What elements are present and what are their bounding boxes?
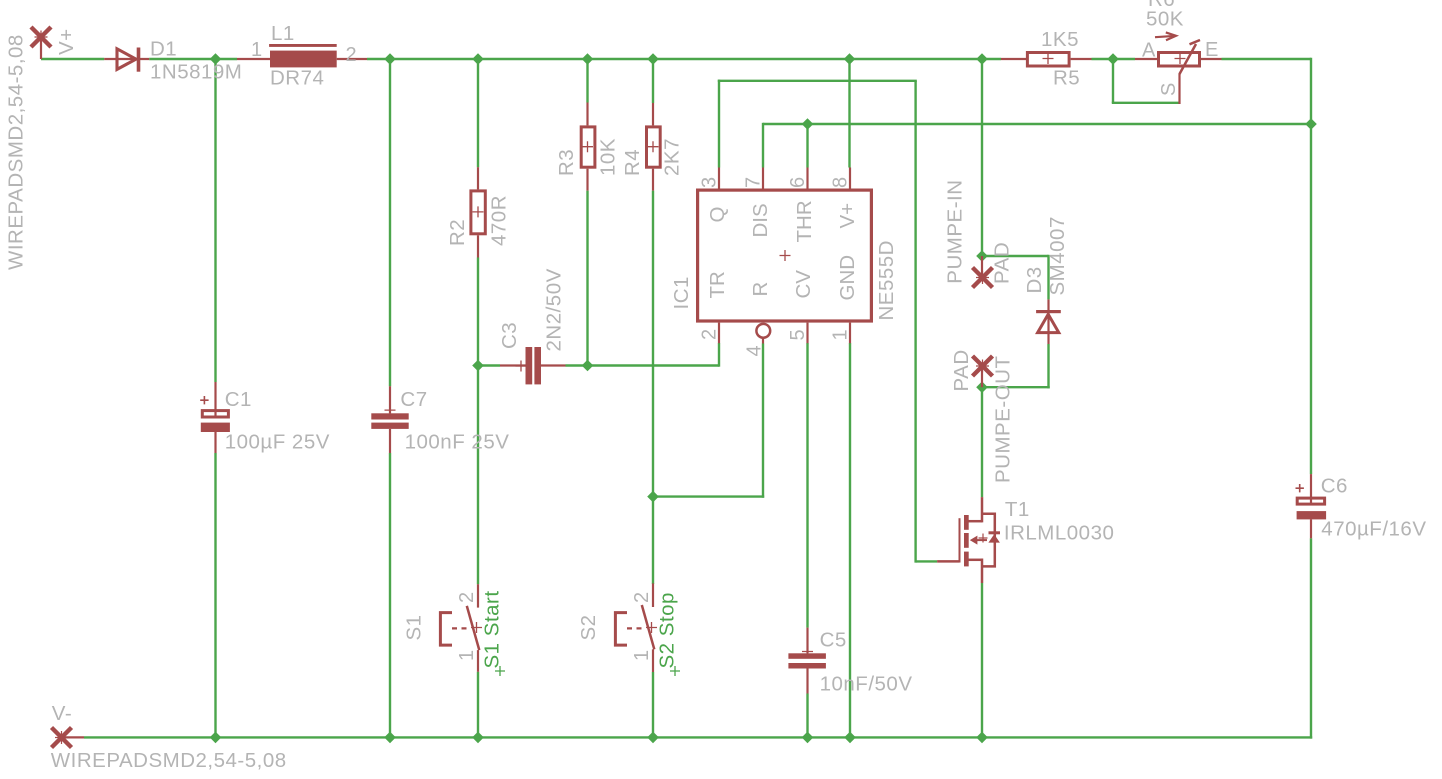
junction	[1305, 118, 1317, 130]
switch S2 lever	[642, 605, 655, 649]
IC1 pin 1 stub	[849, 323, 851, 344]
transistor T1 drain-bar connector	[969, 520, 983, 523]
capacitor C5 bottom pin	[806, 669, 808, 694]
wire up to IC pin 2	[718, 343, 720, 367]
svg-text:SM4007: SM4007	[1046, 216, 1069, 295]
junction	[976, 381, 988, 393]
wire D3 anode down	[1047, 344, 1049, 388]
svg-text:V+: V+	[836, 203, 859, 229]
wire IC pin 3 up	[718, 80, 720, 168]
wire pad PUMPE-IN	[973, 268, 993, 288]
wire to PUMPE-OUT node	[982, 386, 1050, 388]
junction	[582, 360, 594, 372]
wire down to D3 cathode	[1047, 255, 1049, 300]
transistor T1 substrate arrow	[970, 536, 987, 545]
wire R4 to S2 pin 2	[652, 191, 654, 584]
svg-text:PAD: PAD	[950, 349, 973, 391]
svg-text:E: E	[1205, 39, 1219, 61]
svg-text:2N2/50V: 2N2/50V	[543, 268, 566, 351]
wire top rail to R2	[477, 59, 479, 167]
capacitor C5 top pin	[806, 628, 808, 654]
wire T1 source to bottom rail	[981, 583, 983, 737]
svg-text:A: A	[1142, 40, 1156, 62]
junction	[844, 53, 856, 65]
wire pot S horizontal	[1112, 102, 1180, 104]
potentiometer R6 left pin	[1135, 58, 1157, 60]
junction	[472, 53, 484, 65]
IC1 pin 5 stub	[806, 323, 808, 344]
junction	[384, 53, 396, 65]
switch S2 pin 1	[652, 649, 654, 672]
wire pad V+	[31, 27, 51, 47]
capacitor C3 right pin	[541, 364, 566, 366]
junction	[582, 53, 594, 65]
svg-text:1K5: 1K5	[1041, 28, 1079, 51]
svg-text:D1: D1	[150, 38, 177, 61]
svg-text:2: 2	[346, 44, 358, 66]
wire C5 to bottom rail	[806, 694, 808, 738]
junction	[647, 491, 659, 503]
svg-text:R4: R4	[621, 149, 644, 176]
junction	[210, 732, 222, 744]
resistor R3	[581, 127, 595, 167]
resistor R2	[471, 191, 485, 234]
wire IC pin 4 down	[762, 344, 764, 498]
junction	[976, 250, 988, 262]
capacitor C7 bottom pin	[389, 429, 391, 453]
transistor T1 body diode	[988, 531, 1000, 542]
wire top rail to R4	[652, 59, 654, 103]
wire DIS-THR net horizontal	[763, 123, 1311, 125]
capacitor C6 bottom pin	[1310, 519, 1312, 538]
resistor R3 bottom pin	[586, 169, 588, 191]
potentiometer R6 right pin	[1201, 58, 1222, 60]
diode D3 pin	[1047, 299, 1049, 344]
wire C1 branch lower	[214, 453, 216, 737]
wire C7 branch upper	[389, 59, 391, 386]
wire IC pin 8 to top rail	[848, 59, 850, 168]
svg-text:V-: V-	[52, 702, 72, 725]
transistor T1 drain pin	[981, 497, 984, 522]
svg-text:8: 8	[830, 176, 852, 188]
svg-text:R5: R5	[1053, 67, 1080, 90]
IC op-amp/timer IC1 body	[698, 190, 872, 321]
svg-text:C1: C1	[225, 388, 252, 411]
inductor L1 pin 1	[237, 58, 270, 60]
wire C3 left node	[478, 364, 500, 366]
transistor T1 gate line	[959, 518, 961, 562]
transistor T1 gate pin	[937, 560, 959, 563]
resistor R5 right pin	[1071, 58, 1092, 60]
capacitor C3	[526, 347, 542, 384]
svg-text:L1: L1	[271, 22, 295, 45]
svg-text:100nF 25V: 100nF 25V	[405, 431, 510, 454]
svg-text:WIREPADSMD2,54-5,08: WIREPADSMD2,54-5,08	[51, 749, 287, 772]
svg-text:DIS: DIS	[749, 203, 772, 237]
svg-text:PUMPE-IN: PUMPE-IN	[944, 179, 967, 283]
svg-text:10nF/50V: 10nF/50V	[820, 673, 913, 696]
svg-text:S2: S2	[577, 614, 600, 640]
wire C7 branch lower	[389, 453, 391, 737]
IC1 pin 2 stub	[718, 323, 720, 344]
capacitor C6	[1297, 498, 1327, 519]
wire PUMPE-IN node to D3	[982, 255, 1049, 257]
transistor T1 source connector	[969, 559, 983, 562]
IC1 pin 4 stub	[762, 338, 764, 343]
svg-text:IC1: IC1	[670, 276, 693, 309]
switch S2 pin 2	[652, 583, 654, 607]
svg-text:S1 Start: S1 Start	[480, 590, 503, 668]
svg-text:THR: THR	[793, 200, 816, 242]
junction	[802, 732, 814, 744]
svg-text:50K: 50K	[1146, 8, 1184, 31]
svg-text:3: 3	[699, 176, 721, 188]
junction	[472, 732, 484, 744]
svg-text:PAD: PAD	[991, 242, 1014, 284]
transistor T1 right branch	[982, 514, 995, 567]
wire TR node to IC pin 2	[588, 364, 720, 366]
potentiometer R6 body	[1159, 53, 1200, 67]
svg-text:R3: R3	[555, 149, 578, 176]
wire pad PUMPE-IN pin	[981, 256, 983, 278]
wire pot E to right edge	[1222, 58, 1312, 60]
wire D1 cathode to L1	[149, 58, 237, 60]
svg-text:C5: C5	[820, 628, 847, 651]
junction	[647, 53, 659, 65]
wire V- bottom rail	[84, 736, 1312, 738]
wire C3 right to R3 node	[566, 364, 588, 366]
capacitor C6 plus sign	[1296, 484, 1304, 492]
origin cross S1 Start	[495, 666, 505, 676]
wire to T1 gate	[916, 560, 938, 562]
IC1 pin 4 inversion bubble	[756, 324, 770, 338]
inductor L1	[269, 44, 337, 67]
capacitor C1 top pin	[214, 382, 216, 417]
wire pad PUMPE-OUT pin	[981, 366, 983, 387]
wire R2 to S1 pin 2	[477, 258, 479, 585]
wire C6 to bottom rail	[1310, 538, 1312, 738]
wire top rail to R3	[586, 59, 588, 103]
diode D1	[117, 48, 140, 72]
svg-text:470R: 470R	[487, 195, 510, 246]
wire top rail L1 to R5	[367, 58, 1001, 60]
capacitor C5	[788, 653, 826, 668]
junction	[976, 53, 988, 65]
svg-text:2K7: 2K7	[660, 138, 683, 176]
switch S2 actuator bracket	[615, 613, 627, 646]
transistor T1 channel bars	[964, 515, 969, 566]
resistor R2 bottom pin	[477, 235, 479, 257]
svg-text:IRLML0030: IRLML0030	[1004, 521, 1114, 544]
svg-text:2: 2	[631, 591, 653, 603]
svg-text:T1: T1	[1005, 498, 1030, 521]
junction	[802, 118, 814, 130]
capacitor C6 top pin	[1310, 474, 1312, 504]
svg-text:WIREPADSMD2,54-5,08: WIREPADSMD2,54-5,08	[5, 34, 28, 270]
junction	[210, 53, 222, 65]
svg-text:TR: TR	[706, 271, 729, 298]
potentiometer R6 wiper	[1180, 40, 1201, 74]
svg-text:S2 Stop: S2 Stop	[655, 592, 678, 668]
transistor T1 source pin	[981, 559, 984, 584]
junction	[384, 732, 396, 744]
switch S1 actuator bracket	[440, 613, 452, 646]
svg-text:1: 1	[251, 39, 263, 61]
svg-text:2: 2	[456, 591, 478, 603]
wire top rail to PUMPE-IN node	[981, 59, 983, 256]
svg-text:470µF/16V: 470µF/16V	[1321, 518, 1426, 541]
wire IC pin 1 GND to bottom rail	[849, 343, 851, 737]
svg-text:D3: D3	[1023, 266, 1046, 293]
IC1 pin 6 stub	[806, 168, 808, 189]
resistor R4 bottom pin	[652, 169, 654, 191]
svg-text:C3: C3	[498, 322, 521, 349]
wire reset net horizontal	[653, 495, 764, 497]
wire Q net vertical to gate	[914, 81, 916, 563]
svg-text:1: 1	[456, 649, 478, 661]
switch S1 pin 1	[477, 650, 479, 672]
junction	[472, 360, 484, 372]
IC1 pin 3 stub	[718, 168, 720, 189]
wire pot S down	[1112, 59, 1114, 103]
wire C1 branch upper	[214, 59, 216, 382]
wire pad PUMPE-OUT	[973, 356, 993, 376]
svg-text:PUMPE-OUT: PUMPE-OUT	[992, 356, 1015, 484]
wire IC pin 7 up	[762, 123, 764, 168]
capacitor C3 left pin	[500, 364, 526, 366]
svg-text:V+: V+	[55, 28, 78, 55]
capacitor C7	[371, 413, 408, 429]
inductor L1 pin 2	[337, 58, 367, 60]
junction	[647, 732, 659, 744]
resistor R3 top pin	[586, 103, 588, 126]
capacitor C1 bottom pin	[214, 432, 216, 453]
svg-text:10K: 10K	[596, 138, 619, 176]
wire V+ top rail from pad to D1	[41, 58, 104, 60]
origin cross S2 Stop	[670, 666, 680, 676]
wire pad V-	[52, 728, 72, 748]
potentiometer R6 arrow	[1155, 32, 1176, 40]
resistor R5	[1027, 53, 1069, 67]
switch S1 pin 2	[477, 584, 479, 607]
wire R3 to C3 node	[586, 191, 588, 366]
svg-text:7: 7	[743, 176, 765, 188]
resistor R4	[647, 127, 661, 167]
IC1 pin 8 stub	[849, 168, 851, 189]
capacitor C1	[201, 411, 230, 432]
wire pad V+ pin	[40, 37, 42, 59]
svg-text:100µF 25V: 100µF 25V	[225, 431, 330, 454]
wire right vertical to C6	[1310, 58, 1312, 474]
svg-text:C6: C6	[1321, 475, 1348, 498]
junction	[844, 732, 856, 744]
resistor R4 top pin	[652, 103, 654, 125]
junction	[976, 732, 988, 744]
svg-text:Q: Q	[706, 207, 729, 223]
wire IC pin 5 to C5	[806, 343, 808, 628]
resistor R5 left pin	[1001, 58, 1026, 60]
wire pad V- pin	[62, 736, 85, 738]
resistor R2 top pin	[477, 167, 479, 189]
switch S1 lever	[467, 606, 480, 650]
svg-text:1: 1	[830, 329, 852, 341]
diode D1 anode pin	[104, 58, 149, 60]
svg-text:S: S	[1158, 82, 1180, 96]
svg-text:1: 1	[631, 649, 653, 661]
diode D3	[1036, 310, 1061, 333]
svg-text:S1: S1	[403, 614, 426, 640]
wire S2 pin 1 to bottom rail	[652, 672, 654, 737]
svg-text:NE555D: NE555D	[875, 240, 898, 321]
svg-text:DR74: DR74	[270, 67, 324, 90]
capacitor C1 plus sign	[200, 396, 208, 404]
potentiometer R6 S pin	[1178, 74, 1180, 105]
svg-text:CV: CV	[792, 270, 815, 299]
svg-text:C7: C7	[400, 388, 427, 411]
svg-text:6: 6	[787, 176, 809, 188]
switch S1 actuator dashed link	[452, 627, 471, 629]
svg-text:GND: GND	[836, 255, 859, 301]
junction	[1107, 53, 1119, 65]
svg-text:R: R	[749, 282, 772, 297]
wire IC pin 6 up	[806, 124, 808, 168]
svg-text:5: 5	[787, 329, 809, 341]
svg-text:R2: R2	[446, 219, 469, 246]
svg-text:4: 4	[743, 345, 765, 357]
switch S2 actuator dashed link	[627, 627, 646, 629]
wire R5 to pot junction	[1092, 58, 1136, 60]
capacitor C7 top pin	[389, 386, 391, 413]
svg-text:1N5819M: 1N5819M	[150, 60, 242, 83]
svg-text:2: 2	[699, 328, 721, 340]
wire S1 pin 1 to bottom rail	[477, 672, 479, 738]
wire Q net horizontal	[718, 80, 917, 82]
IC1 pin 7 stub	[762, 168, 764, 189]
wire PUMPE-OUT node to T1 drain	[981, 387, 983, 497]
